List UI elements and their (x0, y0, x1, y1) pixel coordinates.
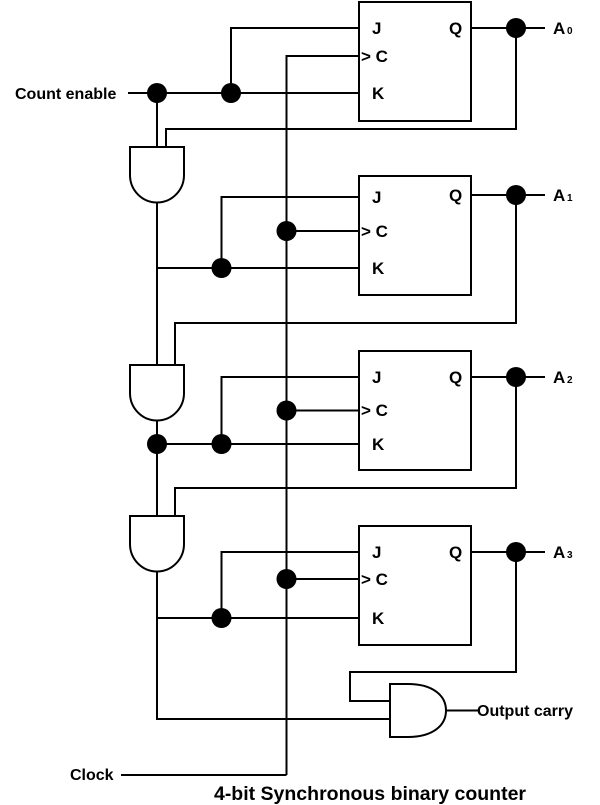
svg-text:K: K (372, 259, 385, 278)
svg-text:> C: > C (361, 222, 388, 241)
svg-text:A: A (553, 186, 565, 205)
net label A0 (553, 19, 573, 38)
flip-flop FF2 box (359, 351, 471, 470)
wire J1 riser and line (222, 197, 360, 268)
svg-text:> C: > C (361, 570, 388, 589)
wire gate G3 output down to carry gate input (157, 572, 390, 720)
junction dot Q2 (506, 367, 526, 387)
svg-text:0: 0 (567, 26, 573, 37)
wire gate G1 output trunk to gate G2 (156, 203, 158, 366)
wire C1 from clock dot (287, 230, 360, 232)
svg-text:K: K (372, 84, 385, 103)
junction dot Q3 (506, 542, 526, 562)
wire A3 feedback to carry gate (350, 552, 516, 701)
wire Q0 output (471, 27, 545, 29)
net label A2 (553, 368, 573, 387)
wire gate G2 output trunk to gate G3 (156, 421, 158, 517)
junction dot clock C2 (277, 401, 297, 421)
junction dot K3 J riser (212, 608, 232, 628)
flip-flop FF3 box (359, 526, 471, 645)
wire output carry (446, 710, 478, 712)
svg-text:J: J (372, 188, 381, 207)
junction dot K1 J riser (212, 258, 232, 278)
wire C3 from clock dot (287, 578, 360, 580)
AND gate G3 (130, 516, 184, 572)
junction dot Q1 (506, 185, 526, 205)
svg-text:> C: > C (361, 47, 388, 66)
junction dot count enable B (221, 83, 241, 103)
svg-text:> C: > C (361, 401, 388, 420)
svg-text:Q: Q (449, 368, 462, 387)
wire Q1 output (471, 194, 545, 196)
wire K2 line (157, 443, 359, 445)
svg-text:J: J (372, 19, 381, 38)
flip-flop FF1 box (359, 176, 471, 295)
svg-text:J: J (372, 368, 381, 387)
wire K3 line (157, 617, 359, 619)
junction dot K2 gate output (147, 434, 167, 454)
junction dot count enable A (147, 83, 167, 103)
junction dot K2 J riser (212, 434, 232, 454)
svg-text:Count enable: Count enable (15, 86, 116, 103)
svg-text:Q: Q (449, 186, 462, 205)
wire count enable line (128, 92, 359, 94)
svg-text:A: A (553, 19, 565, 38)
wire riser dot1 to gate G1 left input (156, 93, 158, 147)
wire riser dot2 to J0 corner (231, 28, 359, 93)
junction dot clock C3 (277, 569, 297, 589)
net label A3 (553, 543, 573, 562)
svg-text:2: 2 (567, 375, 573, 386)
wire J3 riser and line (222, 552, 360, 618)
wire A1 feedback (175, 195, 516, 365)
svg-text:4-bit Synchronous binary count: 4-bit Synchronous binary counter (214, 783, 526, 805)
AND gate G2 (130, 365, 184, 421)
svg-text:Clock: Clock (70, 767, 114, 784)
wire J2 riser and line (222, 377, 360, 444)
svg-text:K: K (372, 609, 385, 628)
junction dot Q0 (506, 18, 526, 38)
wire clock vertical (287, 56, 360, 775)
AND gate G1 (130, 147, 184, 202)
AND gate G4 output carry (390, 684, 446, 737)
svg-text:Q: Q (449, 19, 462, 38)
svg-text:1: 1 (567, 193, 573, 204)
svg-text:Q: Q (449, 543, 462, 562)
junction dot clock C1 (277, 221, 297, 241)
wire Q3 output (471, 551, 545, 553)
wire A0 feedback (166, 28, 516, 147)
wire C2 from clock dot (287, 410, 360, 412)
wire clock horizontal to label (121, 774, 287, 776)
svg-text:A: A (553, 368, 565, 387)
wire Q2 output (471, 376, 545, 378)
flip-flop FF0 box (359, 2, 471, 121)
svg-text:Output carry: Output carry (477, 703, 573, 720)
net label A1 (553, 186, 573, 205)
svg-text:K: K (372, 435, 385, 454)
svg-text:3: 3 (567, 550, 573, 561)
wire A2 feedback (175, 377, 516, 516)
svg-text:J: J (372, 543, 381, 562)
svg-text:A: A (553, 543, 565, 562)
wire K1 line (157, 267, 359, 269)
